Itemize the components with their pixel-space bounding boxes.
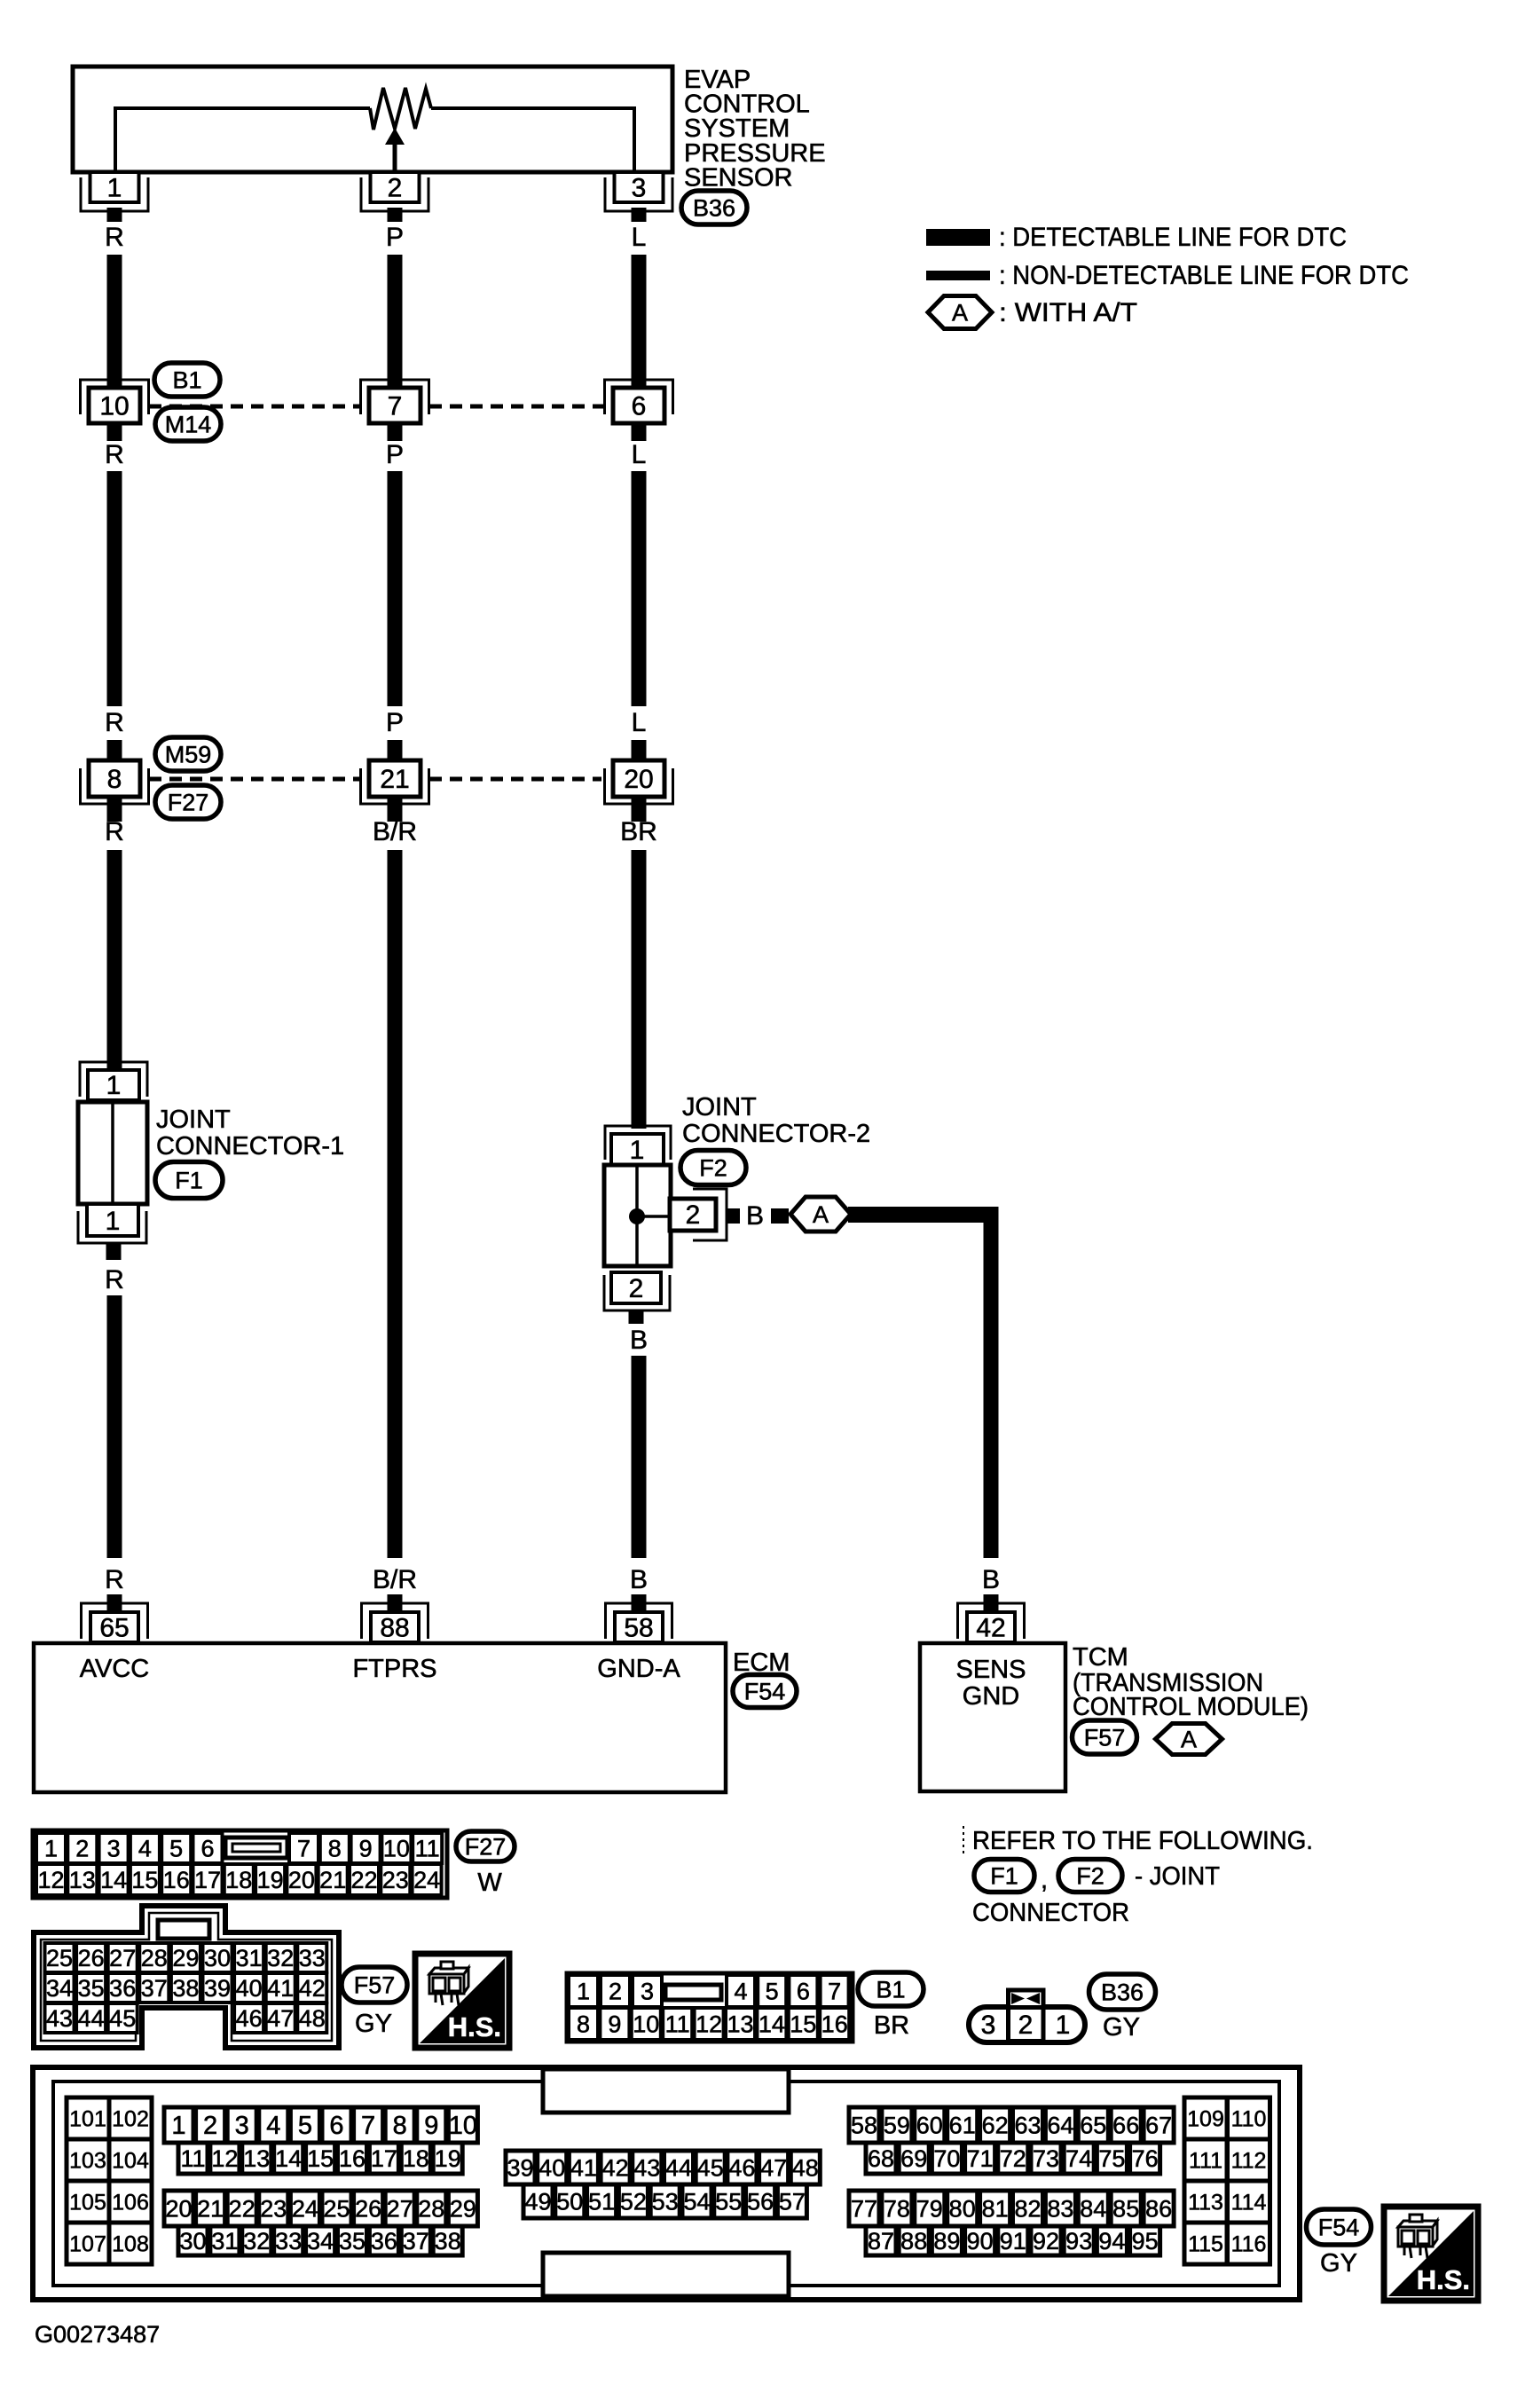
connector id F2	[680, 1151, 746, 1185]
svg-text:REFER TO THE FOLLOWING.: REFER TO THE FOLLOWING.	[972, 1827, 1313, 1855]
svg-text:CONNECTOR: CONNECTOR	[972, 1899, 1129, 1927]
svg-text:76: 76	[1132, 2145, 1159, 2172]
svg-text:B: B	[630, 1326, 648, 1355]
wire R segment B	[107, 471, 122, 706]
F54 pins 77-86	[849, 2191, 879, 2226]
wiper arrow	[393, 140, 397, 171]
dashed connector junction line row2	[149, 777, 361, 782]
EVAP control system pressure sensor B36 outline	[73, 67, 672, 172]
svg-text:GY: GY	[1103, 2013, 1140, 2042]
svg-text:74: 74	[1065, 2145, 1092, 2172]
svg-text:44: 44	[665, 2154, 692, 2181]
svg-text:GY: GY	[355, 2010, 392, 2038]
svg-text:B1: B1	[876, 1976, 905, 2003]
svg-text:19: 19	[257, 1867, 284, 1893]
svg-text:4: 4	[138, 1835, 152, 1861]
svg-text:12: 12	[37, 1867, 64, 1893]
branch wire B horizontal to TCM	[848, 1207, 999, 1223]
svg-text:TCM: TCM	[1073, 1643, 1128, 1672]
svg-text:F1: F1	[990, 1862, 1018, 1889]
svg-text:29: 29	[450, 2195, 476, 2222]
joint connector-2 side pin 2	[670, 1199, 716, 1231]
joint connector-2 top bracket	[605, 1126, 671, 1160]
svg-text:A: A	[952, 299, 968, 326]
ECM pin stubs	[107, 1594, 122, 1614]
svg-text:JOINT: JOINT	[682, 1093, 757, 1121]
svg-text:A: A	[1181, 1726, 1197, 1752]
svg-text:14: 14	[275, 2145, 302, 2172]
svg-text:18: 18	[403, 2145, 429, 2172]
refer F1 oval	[974, 1860, 1034, 1893]
svg-text:116: 116	[1231, 2231, 1267, 2256]
joint connector-1 top bracket	[80, 1062, 147, 1097]
svg-text:33: 33	[299, 1945, 326, 1971]
svg-text:10: 10	[383, 1835, 410, 1861]
row2 stubs above	[107, 740, 122, 761]
svg-text:53: 53	[652, 2188, 679, 2215]
svg-text:10: 10	[633, 2011, 659, 2037]
svg-text:30: 30	[179, 2228, 206, 2255]
svg-text:B: B	[746, 1201, 764, 1231]
svg-text:3: 3	[107, 1835, 121, 1861]
svg-text:31: 31	[211, 2228, 238, 2255]
F54 top notch	[543, 2069, 789, 2113]
svg-text:15: 15	[131, 1867, 158, 1893]
svg-text:110: 110	[1231, 2106, 1267, 2131]
svg-text:32: 32	[267, 1945, 294, 1971]
joint connector-1 stub	[106, 1243, 122, 1260]
svg-text:42: 42	[976, 1614, 1005, 1643]
svg-text:7: 7	[828, 1978, 841, 2004]
svg-text:P: P	[386, 708, 404, 737]
F54 connector id	[1307, 2209, 1372, 2245]
svg-text:104: 104	[112, 2148, 149, 2173]
svg-text:69: 69	[900, 2145, 927, 2172]
svg-text:111: 111	[1189, 2148, 1222, 2173]
svg-text:17: 17	[194, 1867, 221, 1893]
svg-text:115: 115	[1188, 2231, 1223, 2256]
F54 pins 30-38	[178, 2226, 208, 2255]
B1 key slot	[665, 1985, 721, 2000]
svg-text:77: 77	[851, 2195, 877, 2222]
svg-text:108: 108	[112, 2231, 149, 2256]
svg-text:39: 39	[204, 1975, 231, 2002]
inline connector pin 6	[605, 380, 673, 414]
svg-text:2: 2	[629, 1274, 644, 1303]
svg-text:1: 1	[107, 174, 122, 203]
svg-text:92: 92	[1033, 2228, 1059, 2255]
svg-text:R: R	[105, 1565, 124, 1594]
svg-text:H.S.: H.S.	[448, 2011, 501, 2042]
svg-text:L: L	[632, 708, 647, 737]
svg-text:49: 49	[524, 2188, 551, 2215]
svg-text:22: 22	[229, 2195, 255, 2222]
with A/T hexagon on branch	[790, 1197, 851, 1232]
F54 pins 58-67	[849, 2107, 879, 2143]
svg-text:88: 88	[380, 1614, 409, 1643]
svg-text:14: 14	[100, 1867, 127, 1893]
svg-text:P: P	[386, 223, 404, 252]
svg-text:14: 14	[759, 2011, 785, 2037]
joint connector-2 bottom bracket	[604, 1275, 670, 1310]
svg-text:3: 3	[235, 2112, 249, 2140]
legend detectable line sample	[926, 229, 990, 246]
svg-text:89: 89	[933, 2228, 960, 2255]
inline connector pin 10	[81, 380, 149, 414]
svg-text:58: 58	[851, 2112, 877, 2138]
potentiometer resistor zigzag	[370, 88, 431, 130]
inline connector pin 7	[361, 380, 429, 414]
sensor pin stubs	[107, 208, 122, 222]
svg-text:4: 4	[734, 1978, 747, 2004]
svg-text:GY: GY	[1320, 2249, 1357, 2278]
svg-text:38: 38	[172, 1975, 199, 2002]
joint connector-1 body F1	[78, 1102, 147, 1204]
F57 pins 46-48	[234, 2003, 263, 2033]
svg-text:SENSOR: SENSOR	[684, 163, 792, 192]
joint connector-2 stub	[629, 1310, 644, 1324]
svg-text:W: W	[477, 1869, 502, 1897]
svg-text:: NON-DETECTABLE LINE FOR DTC: : NON-DETECTABLE LINE FOR DTC	[999, 261, 1409, 290]
svg-text:8: 8	[328, 1835, 342, 1861]
svg-text:B: B	[630, 1565, 648, 1594]
svg-text:91: 91	[1000, 2228, 1026, 2255]
B1 connector id	[858, 1972, 924, 2006]
svg-text:45: 45	[697, 2154, 724, 2181]
svg-text:B1: B1	[172, 366, 201, 393]
F54 pins 49-57	[523, 2184, 553, 2218]
svg-text:7: 7	[361, 2112, 375, 2140]
svg-text:67: 67	[1145, 2112, 1172, 2138]
svg-text:73: 73	[1033, 2145, 1059, 2172]
svg-text:2: 2	[388, 174, 403, 203]
svg-text:28: 28	[141, 1945, 168, 1971]
svg-text:106: 106	[112, 2190, 149, 2215]
svg-text:21: 21	[380, 765, 409, 794]
svg-text:24: 24	[413, 1867, 440, 1893]
svg-text:,: ,	[1041, 1866, 1048, 1894]
wire B segment C	[632, 850, 647, 1129]
F54 pins 109-116	[1184, 2097, 1227, 2139]
svg-text:1: 1	[44, 1835, 58, 1861]
svg-text:82: 82	[1014, 2195, 1041, 2222]
svg-text:13: 13	[727, 2011, 753, 2037]
svg-text:65: 65	[1080, 2112, 1106, 2138]
svg-text:102: 102	[112, 2106, 149, 2131]
svg-text:59: 59	[884, 2112, 910, 2138]
F57 pins 25-33	[45, 1943, 75, 1972]
svg-text:34: 34	[46, 1975, 73, 2002]
joint connector-2 top pin 1	[611, 1134, 664, 1165]
svg-text:79: 79	[916, 2195, 943, 2222]
svg-text:25: 25	[323, 2195, 350, 2222]
F27 connector id	[456, 1831, 515, 1861]
F54 pins 101-108	[67, 2097, 109, 2139]
F54 pins 39-48	[506, 2151, 535, 2184]
svg-text:51: 51	[588, 2188, 615, 2215]
svg-text:3: 3	[632, 174, 647, 203]
svg-text:35: 35	[339, 2228, 366, 2255]
svg-text:27: 27	[109, 1945, 136, 1971]
connector id M14	[155, 407, 221, 441]
svg-text:R: R	[105, 817, 124, 846]
svg-text:R: R	[105, 1265, 124, 1294]
inline connector pin 8	[81, 768, 149, 804]
svg-text:24: 24	[292, 2195, 318, 2222]
wire L segment B	[632, 471, 647, 706]
svg-text:31: 31	[236, 1945, 263, 1971]
svg-text:L: L	[632, 223, 647, 252]
svg-text:23: 23	[260, 2195, 287, 2222]
wire P segment B	[388, 471, 403, 706]
sensor pin 2	[361, 177, 428, 211]
svg-text:60: 60	[916, 2112, 943, 2138]
svg-text:36: 36	[371, 2228, 397, 2255]
svg-text:29: 29	[172, 1945, 199, 1971]
svg-text:7: 7	[388, 392, 403, 421]
F57 connector body	[34, 1906, 339, 2048]
F57 pins 43-45	[45, 2003, 75, 2033]
svg-text:2: 2	[203, 2112, 217, 2140]
F54 pins 20-29	[164, 2191, 193, 2226]
legend with A/T hexagon	[928, 296, 992, 329]
svg-text:11: 11	[180, 2145, 205, 2172]
svg-text:39: 39	[507, 2154, 533, 2181]
svg-text:43: 43	[633, 2154, 660, 2181]
svg-text:33: 33	[275, 2228, 302, 2255]
F54 bottom notch	[543, 2253, 789, 2296]
svg-text:AVCC: AVCC	[80, 1655, 149, 1683]
wire R segment A	[107, 255, 122, 388]
wire B segment E	[632, 1356, 647, 1558]
svg-text:16: 16	[821, 2011, 848, 2037]
svg-text:47: 47	[760, 2154, 787, 2181]
svg-text:38: 38	[435, 2228, 461, 2255]
sensor internal wire left	[115, 108, 370, 171]
svg-text:21: 21	[197, 2195, 224, 2222]
svg-text:F54: F54	[1318, 2214, 1360, 2240]
svg-text:BR: BR	[874, 2011, 909, 2040]
svg-text:30: 30	[204, 1945, 231, 1971]
svg-text:35: 35	[78, 1975, 105, 2002]
svg-text:2: 2	[75, 1835, 89, 1861]
wire L segment A	[632, 255, 647, 388]
svg-text:81: 81	[982, 2195, 1009, 2222]
svg-text:19: 19	[435, 2145, 461, 2172]
svg-text:55: 55	[715, 2188, 742, 2215]
svg-text:JOINT: JOINT	[156, 1106, 231, 1134]
dashed connector junction line row1	[149, 405, 361, 409]
svg-text:F27: F27	[465, 1833, 507, 1860]
svg-text:80: 80	[949, 2195, 976, 2222]
svg-text:2: 2	[686, 1200, 701, 1230]
svg-text:107: 107	[69, 2231, 106, 2256]
svg-text:20: 20	[624, 765, 653, 794]
svg-text:11: 11	[665, 2011, 690, 2037]
svg-text:G00273487: G00273487	[35, 2321, 160, 2348]
svg-text:105: 105	[69, 2190, 106, 2215]
svg-text:1: 1	[1056, 2011, 1071, 2040]
svg-text:CONNECTOR-2: CONNECTOR-2	[682, 1120, 870, 1148]
svg-text:61: 61	[949, 2112, 976, 2138]
svg-text:12: 12	[696, 2011, 722, 2037]
svg-text:41: 41	[267, 1975, 294, 2002]
svg-text:M59: M59	[165, 741, 212, 767]
svg-text:A: A	[813, 1201, 829, 1228]
svg-text:F57: F57	[1084, 1724, 1126, 1751]
row1 stubs below	[107, 423, 122, 441]
sensor pin 1	[81, 177, 148, 211]
ECM pin 58	[606, 1603, 672, 1639]
joint connector-1 top pin 1	[88, 1070, 139, 1100]
F27 pins 7-11	[289, 1833, 318, 1863]
F27 key slot	[225, 1837, 287, 1858]
svg-text:43: 43	[46, 2005, 73, 2032]
svg-text:2: 2	[609, 1978, 622, 2004]
svg-text:F27: F27	[168, 789, 209, 815]
svg-text:2: 2	[1018, 2011, 1034, 2040]
svg-text:M14: M14	[165, 411, 212, 437]
dotted separator	[963, 1826, 964, 1854]
svg-text:42: 42	[602, 2154, 629, 2181]
svg-text:78: 78	[884, 2195, 910, 2222]
F57 pins 34-42	[45, 1973, 75, 2003]
connector id F1	[155, 1162, 223, 1199]
svg-text:63: 63	[1014, 2112, 1041, 2138]
H.S. logo F57	[415, 1954, 509, 2048]
row2 stubs below	[107, 797, 122, 822]
svg-text:F1: F1	[175, 1167, 203, 1193]
svg-text:1: 1	[630, 1136, 645, 1165]
svg-text:40: 40	[538, 2154, 565, 2181]
joint connector-1 bottom bracket	[78, 1211, 146, 1243]
svg-text:B/R: B/R	[373, 1565, 417, 1594]
svg-text:B36: B36	[1101, 1979, 1144, 2005]
F54 ECM connector outer	[33, 2067, 1300, 2300]
svg-text:3: 3	[981, 2011, 996, 2040]
svg-text:84: 84	[1080, 2195, 1106, 2222]
svg-text:66: 66	[1112, 2112, 1139, 2138]
connector id F27	[155, 785, 221, 819]
svg-text:101: 101	[69, 2106, 106, 2131]
svg-text:13: 13	[243, 2145, 270, 2172]
svg-text:71: 71	[967, 2145, 994, 2172]
svg-text:B: B	[982, 1565, 1000, 1594]
joint connector-2 side stub	[727, 1208, 740, 1224]
svg-text:GND-A: GND-A	[597, 1655, 680, 1683]
svg-text:103: 103	[69, 2148, 106, 2173]
svg-text:F54: F54	[744, 1678, 786, 1704]
svg-text:1: 1	[577, 1978, 590, 2004]
svg-text:10: 10	[449, 2112, 477, 2140]
svg-text:17: 17	[371, 2145, 397, 2172]
svg-text:34: 34	[307, 2228, 334, 2255]
svg-text:L: L	[632, 440, 647, 469]
svg-text:P: P	[386, 440, 404, 469]
svg-text:47: 47	[267, 2005, 294, 2032]
ECM box	[34, 1643, 726, 1792]
svg-text:12: 12	[211, 2145, 238, 2172]
svg-text:18: 18	[225, 1867, 252, 1893]
TCM with A/T hexagon	[1156, 1724, 1222, 1755]
svg-text:R: R	[105, 223, 124, 252]
svg-text:8: 8	[577, 2011, 590, 2037]
connector id F54	[733, 1675, 797, 1708]
svg-text:83: 83	[1047, 2195, 1073, 2222]
svg-text:94: 94	[1098, 2228, 1125, 2255]
svg-text:H.S.: H.S.	[1417, 2264, 1470, 2295]
svg-text:36: 36	[109, 1975, 136, 2002]
F27 pins 12-24	[36, 1864, 66, 1895]
svg-text:95: 95	[1132, 2228, 1159, 2255]
svg-text:54: 54	[683, 2188, 710, 2215]
svg-text:GND: GND	[963, 1682, 1019, 1711]
svg-text:58: 58	[624, 1614, 653, 1643]
svg-text:: WITH A/T: : WITH A/T	[999, 298, 1137, 327]
svg-text:8: 8	[107, 765, 122, 794]
svg-text:25: 25	[46, 1945, 73, 1971]
branch wire B vertical to TCM	[984, 1207, 999, 1558]
svg-text:6: 6	[632, 392, 647, 421]
sensor pin 3	[605, 177, 672, 211]
joint connector-2 junction dot	[629, 1208, 645, 1224]
svg-text:26: 26	[78, 1945, 105, 1971]
ECM pin 65	[82, 1603, 148, 1639]
svg-text:5: 5	[298, 2112, 312, 2140]
connector id F57	[1073, 1720, 1137, 1754]
svg-text:BR: BR	[620, 817, 657, 846]
wire P segment A	[388, 255, 403, 388]
svg-text:56: 56	[747, 2188, 774, 2215]
svg-text:37: 37	[403, 2228, 429, 2255]
B1 pins 8-16	[569, 2008, 598, 2040]
F27 pins 1-6	[36, 1833, 66, 1863]
svg-text:42: 42	[299, 1975, 326, 2002]
svg-text:46: 46	[728, 2154, 755, 2181]
svg-text:27: 27	[387, 2195, 413, 2222]
joint connector-1 bottom pin 1	[87, 1204, 138, 1236]
sensor internal wire right	[431, 108, 634, 171]
svg-text:CONTROL MODULE): CONTROL MODULE)	[1073, 1693, 1309, 1721]
F57 connector id	[342, 1967, 407, 2003]
svg-text:112: 112	[1231, 2148, 1267, 2173]
ECM pin 88	[362, 1603, 428, 1639]
svg-text:88: 88	[900, 2228, 927, 2255]
svg-text:B/R: B/R	[373, 817, 417, 846]
wire R segment D	[107, 1295, 122, 1558]
svg-text:68: 68	[868, 2145, 894, 2172]
svg-text:F2: F2	[1076, 1862, 1104, 1889]
svg-text:1: 1	[106, 1071, 122, 1100]
svg-text:52: 52	[620, 2188, 647, 2215]
legend non-detectable line sample	[926, 271, 990, 280]
svg-text:87: 87	[868, 2228, 894, 2255]
svg-text:20: 20	[165, 2195, 192, 2222]
svg-text:109: 109	[1187, 2106, 1224, 2131]
svg-text:6: 6	[200, 1835, 214, 1861]
svg-text:16: 16	[163, 1867, 190, 1893]
svg-text:48: 48	[299, 2005, 326, 2032]
svg-text:13: 13	[69, 1867, 96, 1893]
svg-text:70: 70	[933, 2145, 960, 2172]
B1 connector body	[567, 1973, 853, 2042]
svg-text:8: 8	[393, 2112, 407, 2140]
svg-text:3: 3	[641, 1978, 654, 2004]
inline connector pin 20	[605, 768, 673, 804]
svg-text:72: 72	[1000, 2145, 1026, 2172]
svg-text:90: 90	[967, 2228, 994, 2255]
B36 connector id	[1089, 1974, 1156, 2010]
